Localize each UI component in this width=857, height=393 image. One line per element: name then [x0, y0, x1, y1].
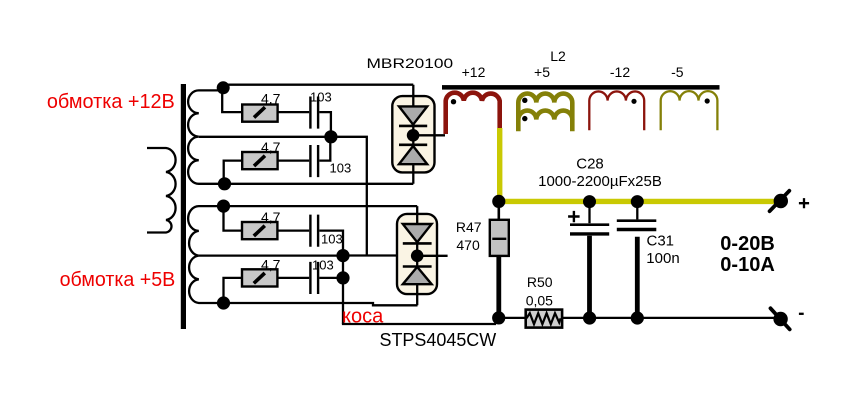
node bottom bus / R47 bottom: [492, 311, 505, 324]
node bottom bus / C28 bottom: [583, 311, 596, 324]
wire: W2 bottom lead to MBR bottom: [225, 183, 414, 185]
snubber row1: wire from W1 dot down to R: [222, 88, 242, 112]
svg-text:4,7: 4,7: [261, 256, 281, 272]
svg-text:C31: C31: [647, 233, 675, 250]
wire row2 C up to center junction: [319, 138, 330, 161]
node yellow bus / C31 top: [631, 195, 644, 208]
wire: W1 top lead to MBR top: [222, 84, 413, 86]
svg-text:0-20В: 0-20В: [720, 233, 774, 255]
svg-text:0-10А: 0-10А: [720, 254, 774, 276]
wire: bottom negative bus: [499, 317, 775, 319]
svg-text:обмотка +5В: обмотка +5В: [60, 269, 176, 291]
svg-text:470: 470: [456, 237, 480, 253]
svg-text:4,7: 4,7: [261, 209, 281, 225]
resistor 4,7 (row4): [242, 256, 281, 286]
snubber row3: wire from W3 dot down to R: [224, 206, 243, 231]
wire MBR cathode to L2: [419, 134, 445, 136]
svg-text:4,7: 4,7: [261, 91, 281, 107]
capacitor C31: [617, 202, 680, 318]
phase dot +5 row2: [522, 116, 527, 121]
transformer secondary winding +5 (W3+W4): [188, 206, 223, 303]
svg-text:0,05: 0,05: [526, 293, 553, 309]
phase dot +5 row1: [522, 98, 527, 103]
svg-text:R47: R47: [456, 219, 482, 235]
snubber row2: wire from W2 dot up to R: [224, 161, 243, 184]
resistor 4,7 (row3): [242, 209, 281, 239]
node bottom bus / C31 bottom: [631, 311, 644, 324]
dual diode U2 STPS4045CW: [397, 206, 437, 305]
wire row4 C to junction B: [319, 277, 343, 279]
wire: W3 top lead to STPS top: [224, 205, 418, 207]
node W3 top: [217, 200, 230, 213]
L2 winding +5: [518, 94, 572, 132]
wire row4 R to C: [277, 277, 309, 279]
wire STPS cathode stub: [423, 255, 448, 257]
phase dot +12: [451, 99, 456, 104]
capacitor 103 (row2): [310, 145, 351, 177]
node B (row4 cap): [336, 271, 349, 284]
svg-text:C28: C28: [576, 155, 604, 172]
terminal + output: [770, 191, 810, 211]
svg-text:-12: -12: [610, 64, 630, 80]
capacitor 103 (row4): [310, 258, 333, 295]
svg-text:103: 103: [310, 90, 332, 105]
capacitor 103 (row3): [310, 215, 342, 247]
transformer secondary winding +12 (W1+W2): [188, 90, 224, 183]
svg-text:103: 103: [330, 161, 352, 176]
wire row3 R to C: [277, 229, 309, 231]
wire: braid (коса) horizontal: [342, 323, 496, 325]
svg-text:100n: 100n: [646, 250, 679, 267]
wire: +5 center tap to junction A: [199, 254, 343, 256]
svg-text:1000-2200µFx25В: 1000-2200µFx25В: [538, 173, 662, 190]
svg-text:+5: +5: [534, 64, 550, 80]
node W2 bottom: [218, 177, 231, 190]
svg-text:103: 103: [312, 258, 334, 273]
svg-text:103: 103: [321, 232, 343, 247]
transformer primary winding: [147, 148, 176, 233]
phase dot -5: [705, 98, 710, 103]
svg-text:R50: R50: [527, 274, 553, 290]
svg-text:4,7: 4,7: [261, 139, 281, 155]
terminal - output: [771, 308, 804, 329]
resistor R47: [456, 201, 509, 318]
transformer T1 core: [181, 84, 186, 329]
svg-text:+12: +12: [462, 64, 486, 80]
resistor R50 (shunt): [526, 274, 562, 328]
L2 winding -12: [589, 91, 644, 130]
snubber row4: wire from W4 dot up to R: [224, 278, 243, 303]
wire row1 R to C: [278, 111, 310, 113]
svg-text:-5: -5: [671, 64, 684, 80]
dual diode U1 MBR20100: [392, 85, 434, 184]
svg-text:обмотка +12В: обмотка +12В: [47, 91, 175, 113]
svg-text:L2: L2: [550, 48, 566, 64]
wire: W4 bottom lead to STPS bottom: [224, 303, 418, 305]
wire: yellow positive bus: [500, 128, 775, 201]
node +12 center tap: [324, 130, 337, 143]
svg-text:MBR20100: MBR20100: [367, 55, 454, 71]
L2 winding -5: [661, 91, 718, 130]
node yellow bus / R47 top: [492, 195, 505, 208]
resistor 4,7 (row1): [242, 91, 280, 122]
wire: center tap junction to STPS common cathode: [331, 137, 417, 256]
node W1 top: [217, 81, 230, 94]
svg-text:STPS4045CW: STPS4045CW: [380, 330, 497, 350]
capacitor 103 (row1): [310, 90, 332, 129]
wire row1 C to center junction: [319, 112, 331, 137]
capacitor C28: [538, 155, 662, 318]
inductor L2 core bar: [442, 85, 720, 90]
L2 winding +12: [446, 93, 500, 134]
wire row2 R to C: [278, 159, 310, 161]
node yellow bus / C28 top: [583, 195, 596, 208]
node A (+5 center tap): [336, 249, 349, 262]
wire row3 C to junction A: [319, 231, 343, 256]
svg-text:коса: коса: [342, 306, 384, 328]
wire: junction A-B vertical down to braid: [342, 256, 344, 324]
phase dot -12: [631, 99, 636, 104]
resistor 4,7 (row2): [242, 139, 280, 169]
wire: +12 center tap to junction: [199, 136, 331, 138]
node W4 bottom: [217, 296, 230, 309]
